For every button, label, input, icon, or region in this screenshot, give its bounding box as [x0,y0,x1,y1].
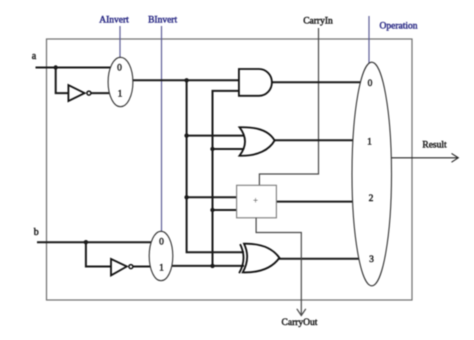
mux A (2:1) [108,57,133,106]
wire adder input a [187,196,237,198]
svg-text:1: 1 [159,263,164,273]
Operation control line [368,16,370,63]
AInvert control line [119,26,121,58]
BInvert control line [161,26,163,232]
wire AND output [270,81,361,83]
junction dot bus B bottom [210,264,214,268]
junction dot a [54,65,58,69]
svg-text:b: b [34,227,39,238]
junction dot b [84,240,88,244]
XOR gate [239,244,279,274]
svg-text:BInvert: BInvert [148,15,177,25]
svg-text:0: 0 [159,238,164,248]
svg-text:a: a [32,51,37,62]
svg-text:0: 0 [368,79,373,89]
inverter NOT-b [111,259,133,276]
junction dot bus B or [210,147,214,151]
CarryOut arrowhead [297,309,306,316]
svg-text:CarryIn: CarryIn [303,16,333,26]
svg-text:0: 0 [117,64,122,74]
bus A vertical [187,80,244,252]
wire mux-b output to XOR [169,265,244,267]
wire adder input b [213,209,238,211]
inverter NOT-a [68,85,91,101]
svg-text:3: 3 [369,255,374,265]
junction dot bus A top [184,78,188,82]
svg-text:CarryOut: CarryOut [282,318,318,328]
wire OR bottom input [213,148,248,150]
svg-text:1: 1 [118,89,123,99]
enclosure box [47,39,413,300]
adder [237,185,277,218]
result mux (4:1) [352,62,392,286]
wire OR top input [187,135,247,137]
svg-text:Operation: Operation [380,21,418,31]
wire OR output [272,139,355,141]
wire adder output [275,201,354,203]
CarryOut line [256,218,301,315]
svg-text:1: 1 [367,137,372,147]
wire mux-a output to AND [130,79,241,81]
junction dot bus B adder [210,208,214,212]
Result arrowhead [452,153,459,162]
CarryIn line [259,28,318,186]
wire b to inverter [86,242,112,266]
wire a input [36,67,113,69]
junction dot bus A adder [184,195,188,199]
bus B vertical [213,91,242,266]
wire b input [37,241,153,243]
wire inverter-a output [91,92,112,94]
wire a to inverter [56,68,69,94]
AND gate [239,69,272,96]
wire XOR output [274,258,359,260]
svg-text:AInvert: AInvert [99,15,129,25]
mux B (2:1) [149,231,173,280]
svg-text:2: 2 [369,194,374,204]
svg-text:+: + [253,195,258,205]
wire Result [392,157,459,159]
OR gate [240,127,275,156]
svg-text:Result: Result [422,140,447,150]
wire inverter-b output [133,266,153,268]
junction dot bus A or [184,133,188,137]
